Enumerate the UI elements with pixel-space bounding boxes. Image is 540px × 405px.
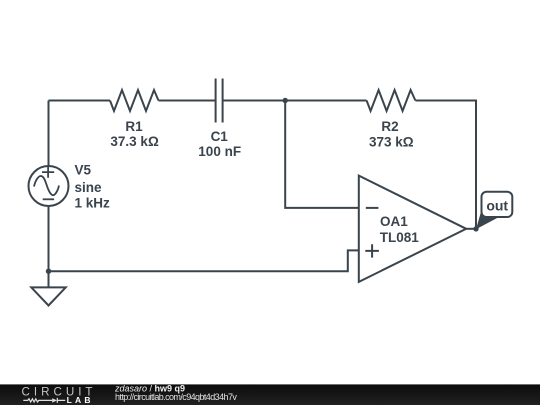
wire top-left horizontal — [49, 100, 111, 102]
node A junction dot — [283, 98, 288, 103]
node out junction dot — [473, 226, 478, 231]
svg-text:C1: C1 — [211, 129, 229, 144]
svg-text:http://circuitlab.com/c94qbt4d: http://circuitlab.com/c94qbt4d34h7v — [115, 392, 237, 402]
wire R2 to output (right drop) — [415, 101, 476, 229]
CircuitLab logo diode triangle — [52, 398, 57, 402]
out flag tail — [476, 209, 499, 229]
capacitor C1 — [216, 79, 223, 123]
ground — [31, 271, 65, 305]
op-amp OA1 — [359, 176, 466, 282]
node junction dot bottom-left — [46, 269, 51, 274]
svg-text:R1: R1 — [125, 119, 143, 134]
svg-text:TL081: TL081 — [380, 230, 420, 245]
wire node A to R2 — [285, 100, 366, 102]
out flag box — [482, 192, 513, 217]
resistor R2 — [367, 90, 416, 111]
resistor R1 — [110, 90, 159, 111]
svg-text:373 kΩ: 373 kΩ — [369, 134, 414, 149]
svg-text:R2: R2 — [381, 119, 398, 134]
svg-text:OA1: OA1 — [380, 214, 408, 229]
wire op-amp output to node — [466, 228, 476, 230]
svg-text:37.3 kΩ: 37.3 kΩ — [110, 134, 159, 149]
svg-text:V5: V5 — [75, 163, 92, 178]
CircuitLab logo resistor-diode line — [23, 398, 65, 403]
svg-text:LAB: LAB — [67, 395, 94, 405]
voltage source V5 — [29, 166, 69, 206]
svg-text:sine: sine — [75, 180, 103, 195]
wire feedback branch node A down to inverting input — [285, 101, 359, 208]
svg-text:1 kHz: 1 kHz — [75, 196, 111, 211]
wire R1 to C1 — [159, 100, 216, 102]
wire bottom horizontal to non-inverting input — [49, 250, 359, 271]
wire left vertical top to V5 — [48, 101, 50, 167]
wire C1 to node A — [223, 100, 286, 102]
svg-text:100 nF: 100 nF — [198, 144, 241, 159]
svg-text:out: out — [486, 198, 508, 214]
wire V5 bottom to junction — [48, 206, 50, 271]
